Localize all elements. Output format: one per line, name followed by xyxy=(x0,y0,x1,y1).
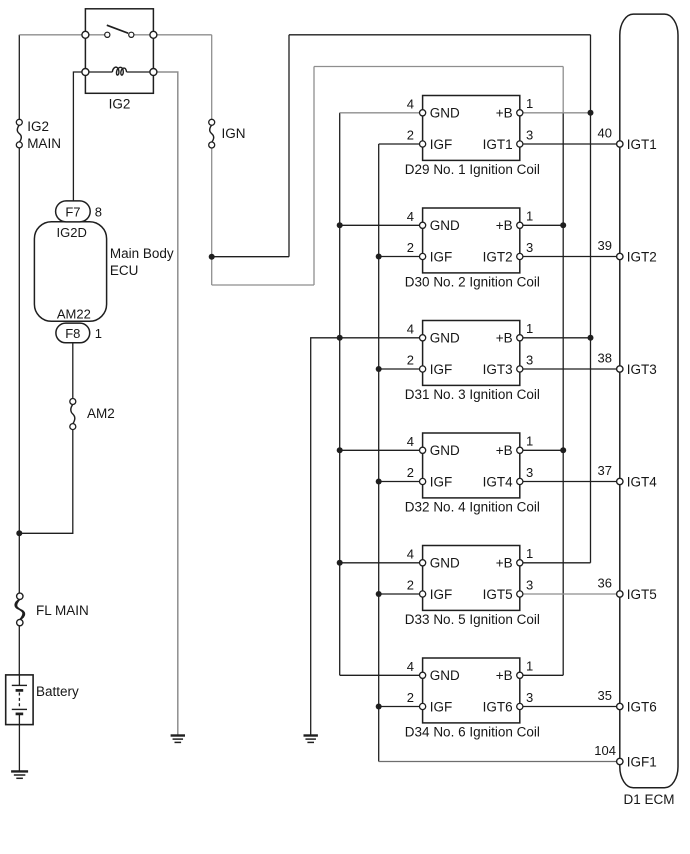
svg-text:36: 36 xyxy=(598,576,612,591)
svg-text:D30 No. 2 Ignition Coil: D30 No. 2 Ignition Coil xyxy=(405,275,540,290)
svg-text:1: 1 xyxy=(95,326,102,341)
svg-text:D1 ECM: D1 ECM xyxy=(624,792,675,807)
svg-text:38: 38 xyxy=(598,351,612,366)
svg-text:2: 2 xyxy=(407,128,414,143)
svg-text:2: 2 xyxy=(407,578,414,593)
svg-text:+B: +B xyxy=(496,556,513,571)
svg-text:40: 40 xyxy=(598,126,612,141)
svg-text:3: 3 xyxy=(526,240,533,255)
svg-text:IGT5: IGT5 xyxy=(627,587,657,602)
svg-text:2: 2 xyxy=(407,240,414,255)
svg-text:IGT4: IGT4 xyxy=(627,474,657,489)
svg-text:F7: F7 xyxy=(65,204,80,219)
svg-text:1: 1 xyxy=(526,96,533,111)
svg-text:AM22: AM22 xyxy=(57,307,91,322)
svg-text:IGF: IGF xyxy=(430,137,453,152)
svg-text:FL MAIN: FL MAIN xyxy=(36,603,89,618)
svg-text:IG2: IG2 xyxy=(109,97,131,112)
svg-text:3: 3 xyxy=(526,690,533,705)
svg-text:GND: GND xyxy=(430,443,460,458)
svg-text:AM2: AM2 xyxy=(87,406,115,421)
svg-text:IGT6: IGT6 xyxy=(627,699,657,714)
svg-text:4: 4 xyxy=(407,209,414,224)
svg-text:IGT5: IGT5 xyxy=(483,587,513,602)
svg-text:1: 1 xyxy=(526,321,533,336)
svg-text:IGT2: IGT2 xyxy=(627,249,657,264)
svg-text:IGT6: IGT6 xyxy=(483,699,513,714)
svg-text:8: 8 xyxy=(95,205,102,220)
svg-text:GND: GND xyxy=(430,106,460,121)
svg-text:4: 4 xyxy=(407,321,414,336)
svg-text:3: 3 xyxy=(526,127,533,142)
svg-text:IGT3: IGT3 xyxy=(483,362,513,377)
svg-text:IGT3: IGT3 xyxy=(627,362,657,377)
svg-text:+B: +B xyxy=(496,218,513,233)
svg-text:IGF: IGF xyxy=(430,474,453,489)
svg-text:+B: +B xyxy=(496,668,513,683)
svg-text:GND: GND xyxy=(430,331,460,346)
svg-text:4: 4 xyxy=(407,434,414,449)
svg-text:2: 2 xyxy=(407,690,414,705)
svg-text:2: 2 xyxy=(407,465,414,480)
svg-text:IGF: IGF xyxy=(430,587,453,602)
svg-text:IGF: IGF xyxy=(430,699,453,714)
svg-text:D31 No. 3 Ignition Coil: D31 No. 3 Ignition Coil xyxy=(405,387,540,402)
svg-text:ECU: ECU xyxy=(110,263,139,278)
svg-text:39: 39 xyxy=(598,238,612,253)
svg-text:IG2D: IG2D xyxy=(57,225,87,240)
svg-text:IGT4: IGT4 xyxy=(483,474,513,489)
svg-text:3: 3 xyxy=(526,577,533,592)
svg-text:+B: +B xyxy=(496,331,513,346)
svg-text:F8: F8 xyxy=(65,326,80,341)
svg-text:3: 3 xyxy=(526,352,533,367)
svg-text:D34 No. 6 Ignition Coil: D34 No. 6 Ignition Coil xyxy=(405,725,540,740)
svg-text:2: 2 xyxy=(407,353,414,368)
svg-text:4: 4 xyxy=(407,96,414,111)
svg-text:37: 37 xyxy=(598,463,612,478)
svg-text:IGN: IGN xyxy=(222,126,246,141)
svg-text:D33 No. 5 Ignition Coil: D33 No. 5 Ignition Coil xyxy=(405,612,540,627)
svg-text:GND: GND xyxy=(430,218,460,233)
svg-text:IGF: IGF xyxy=(430,362,453,377)
svg-text:IGT2: IGT2 xyxy=(483,249,513,264)
svg-text:1: 1 xyxy=(526,209,533,224)
svg-text:4: 4 xyxy=(407,546,414,561)
svg-text:4: 4 xyxy=(407,659,414,674)
svg-text:MAIN: MAIN xyxy=(27,136,61,151)
svg-text:Battery: Battery xyxy=(36,684,79,699)
svg-text:D29 No. 1 Ignition Coil: D29 No. 1 Ignition Coil xyxy=(405,162,540,177)
svg-text:IGT1: IGT1 xyxy=(627,137,657,152)
svg-text:IGF1: IGF1 xyxy=(627,754,657,769)
svg-text:D32 No. 4 Ignition Coil: D32 No. 4 Ignition Coil xyxy=(405,500,540,515)
svg-text:1: 1 xyxy=(526,434,533,449)
svg-text:IGF: IGF xyxy=(430,249,453,264)
svg-text:35: 35 xyxy=(598,688,612,703)
svg-text:1: 1 xyxy=(526,546,533,561)
svg-text:Main Body: Main Body xyxy=(110,246,174,261)
svg-text:104: 104 xyxy=(594,743,616,758)
svg-text:IG2: IG2 xyxy=(27,119,49,134)
svg-text:1: 1 xyxy=(526,659,533,674)
svg-text:+B: +B xyxy=(496,443,513,458)
svg-text:IGT1: IGT1 xyxy=(483,137,513,152)
svg-text:GND: GND xyxy=(430,556,460,571)
svg-text:3: 3 xyxy=(526,465,533,480)
svg-text:GND: GND xyxy=(430,668,460,683)
svg-text:+B: +B xyxy=(496,106,513,121)
